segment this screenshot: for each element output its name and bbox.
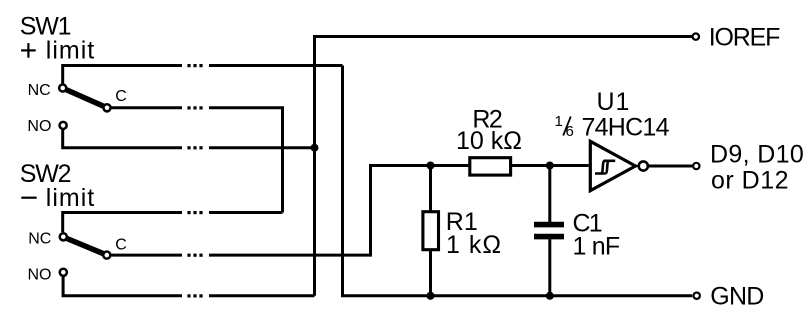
switch SW1 arm xyxy=(63,88,107,108)
inverter U1 output bubble xyxy=(639,161,648,170)
wire SW2 NC: left of break, down to NC pin xyxy=(63,213,182,233)
svg-text:NO: NO xyxy=(27,118,51,135)
wire vertical GND drop x=342.5 then bottom rail to GND terminal xyxy=(343,66,693,296)
capacitor C1 plates xyxy=(534,225,564,237)
wire R2 output to inverter input xyxy=(511,164,589,167)
label 1/6 fraction slash xyxy=(563,117,571,136)
wire SW2 NO: pin down then right to break xyxy=(63,277,182,296)
wire SW2 C continued, up to node wire xyxy=(209,166,469,256)
wire SW1 NO continued to IOREF vertical junction xyxy=(209,146,315,149)
switch SW1 C pin circle xyxy=(103,104,110,111)
svg-text:D9, D10: D9, D10 xyxy=(710,141,804,169)
wire SW1 NO: pin down then right to break xyxy=(63,130,182,148)
svg-text:10 kΩ: 10 kΩ xyxy=(456,127,522,155)
cable break dots on six wires xyxy=(187,64,202,298)
label + limit xyxy=(21,43,36,58)
switch SW2 arm xyxy=(63,237,107,255)
svg-text:IOREF: IOREF xyxy=(709,24,780,52)
svg-text:limit: limit xyxy=(46,184,95,212)
junction node C1 bottom on GND rail xyxy=(546,292,554,300)
svg-text:1: 1 xyxy=(555,113,563,130)
wire SW1 NC top: pin up then right to break xyxy=(63,66,182,84)
wire R1 top lead xyxy=(429,166,432,211)
svg-text:NC: NC xyxy=(28,82,51,99)
wire IOREF rail: vertical x=314.5 and top run to IOREF terminal xyxy=(315,37,693,296)
svg-text:1 kΩ: 1 kΩ xyxy=(446,231,502,259)
switch SW1 NO pin circle xyxy=(60,122,67,129)
wire C1 top lead xyxy=(548,166,551,223)
svg-text:or D12: or D12 xyxy=(711,167,789,195)
svg-text:C: C xyxy=(115,88,127,105)
wire SW1 C: right from C pin to break xyxy=(112,106,183,109)
wire SW2 NO continued to IOREF vertical xyxy=(209,294,315,297)
switch SW2 C pin circle xyxy=(103,252,110,259)
op-amp style inverter U1 triangle xyxy=(590,141,635,190)
inverter U1 hysteresis symbol xyxy=(595,161,615,174)
svg-text:GND: GND xyxy=(710,283,763,311)
wire inverter output to D9 terminal xyxy=(649,165,692,168)
switch SW2 NC pin circle xyxy=(60,233,67,240)
terminal IOREF circle xyxy=(693,33,699,39)
svg-text:74HC14: 74HC14 xyxy=(582,114,670,142)
junction node SW1-NO / IOREF vertical xyxy=(311,144,319,152)
svg-text:6: 6 xyxy=(566,123,574,140)
label − limit xyxy=(21,197,36,199)
svg-text:limit: limit xyxy=(46,37,95,65)
svg-text:NC: NC xyxy=(28,230,51,247)
wire SW2 NC continued right portion to corner xyxy=(209,211,283,214)
terminal GND circle xyxy=(694,293,700,299)
wire R1 bottom lead xyxy=(429,251,432,296)
switch SW2 NO pin circle xyxy=(60,269,67,276)
junction node R1 top on node wire xyxy=(426,161,434,169)
wire SW1 C continued, corner down to SW2 NC wire xyxy=(209,108,283,213)
wire SW2 C: right from C pin to break xyxy=(111,254,182,257)
junction node R1 bottom on GND rail xyxy=(426,292,434,300)
wire SW1 NC top continued to GND vertical xyxy=(209,64,343,67)
svg-text:NO: NO xyxy=(28,267,52,284)
wire C1 bottom lead xyxy=(548,239,551,296)
terminal D9 circle xyxy=(693,163,699,169)
resistor R1 body xyxy=(423,212,439,250)
resistor R2 body xyxy=(470,158,511,175)
junction node C1 top on node wire xyxy=(546,162,554,170)
svg-text:1 nF: 1 nF xyxy=(573,233,620,261)
svg-text:U1: U1 xyxy=(597,88,631,116)
switch SW1 NC pin circle xyxy=(59,84,66,91)
svg-text:C: C xyxy=(115,236,127,253)
